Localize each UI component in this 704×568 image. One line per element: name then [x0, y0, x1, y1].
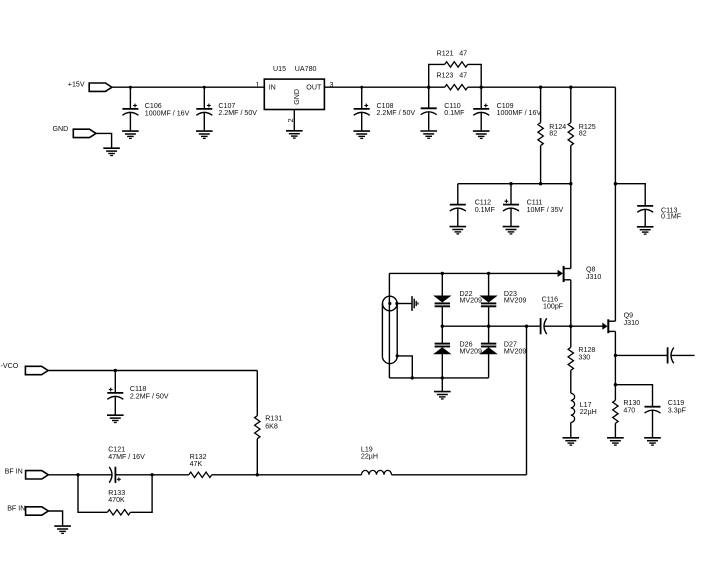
wire right rail down [614, 87, 616, 321]
wire U15 GND pin [293, 110, 295, 131]
capacitor C111 [510, 184, 512, 205]
node junction R125 top [569, 86, 572, 89]
capacitor C121 [109, 467, 115, 483]
capacitor C118 [114, 371, 116, 393]
node junction tuning feed [525, 325, 528, 328]
wire output to edge [671, 354, 694, 356]
resistor R124 [540, 87, 542, 122]
wire C119 branch [615, 385, 652, 407]
svg-text:BF IN: BF IN [5, 467, 23, 475]
wire R121 bypass loop [429, 64, 445, 87]
resistor R125 [570, 87, 572, 122]
capacitor C116 [541, 318, 547, 334]
node junction C119 branch [614, 383, 617, 386]
svg-text:3: 3 [330, 81, 334, 89]
capacitor C110 [428, 87, 430, 108]
svg-text:R131: R131 [265, 415, 282, 423]
svg-text:MV209: MV209 [504, 348, 527, 356]
svg-text:0.1MF: 0.1MF [444, 109, 465, 117]
svg-text:GND: GND [53, 125, 69, 133]
wire output branch [615, 354, 667, 356]
varactor diode D23 MV209 [488, 273, 490, 296]
ground resonator sideways [412, 296, 418, 311]
ground C118 [107, 415, 124, 422]
node junction C108 [360, 86, 363, 89]
node junction C121 left [76, 473, 79, 476]
wire R133 loop right [130, 475, 152, 513]
capacitor output coupling [668, 347, 674, 363]
resistor R132 [189, 472, 212, 477]
node junction output branch [614, 354, 617, 357]
wire U15 OUT rail [324, 86, 444, 88]
node resonator shield tap [396, 354, 399, 357]
node junction R131 bottom [256, 473, 259, 476]
ground C109 [473, 131, 490, 138]
transistor Q8 J310 [558, 266, 571, 282]
wire GND connector to ground [96, 133, 112, 148]
ground C108 [353, 131, 370, 138]
wire varactor ground stem [441, 378, 443, 392]
inductor L19 [362, 470, 392, 474]
resistor R133 [107, 510, 130, 515]
regulator U15 UA780 [264, 79, 324, 109]
svg-text:1: 1 [256, 81, 260, 89]
node junction D23 top [487, 272, 490, 275]
ground C110 [420, 131, 437, 138]
svg-text:47: 47 [459, 71, 467, 79]
input connector -VCO [25, 366, 48, 374]
svg-text:J310: J310 [624, 319, 639, 327]
svg-text:0.1MF: 0.1MF [475, 206, 496, 214]
wire R132 to L19 [212, 474, 362, 476]
wire varactor top line [389, 272, 558, 274]
node junction C121 right [150, 473, 153, 476]
ground varactors [434, 392, 451, 399]
svg-text:MV209: MV209 [504, 297, 527, 305]
node junction C113 branch [614, 182, 617, 185]
svg-text:22µH: 22µH [580, 408, 597, 416]
resistor R123 [445, 85, 468, 90]
inductor L17 [571, 393, 575, 422]
node resonator tap [395, 302, 398, 305]
capacitor C109 [480, 87, 482, 109]
ground U15 [286, 131, 303, 138]
wire rail to right corner [468, 86, 616, 88]
ground C106 [122, 131, 139, 138]
wire -VCO line [48, 370, 257, 372]
ground C119 [644, 438, 661, 445]
svg-text:82: 82 [579, 130, 587, 138]
svg-text:6K8: 6K8 [265, 422, 278, 430]
svg-text:470K: 470K [108, 496, 125, 504]
node junction shield bottom [411, 376, 414, 379]
capacitor C108 [361, 87, 363, 109]
varactor diode D22 MV209 [441, 273, 443, 296]
node junction R121 right [480, 86, 483, 89]
node junction R121 left [427, 86, 430, 89]
node junction C107 on +15V rail [203, 86, 206, 89]
ground L17 [563, 438, 580, 445]
svg-text:-VCO: -VCO [1, 362, 19, 370]
wire Q8 source down [570, 280, 572, 326]
wire Q9 source down [614, 331, 616, 400]
node junction R125 line [569, 182, 572, 185]
svg-text:22µH: 22µH [361, 453, 378, 461]
ground C107 [196, 131, 213, 138]
svg-text:IN: IN [269, 84, 276, 92]
svg-text:GND: GND [293, 89, 301, 105]
input connector GND [73, 129, 96, 137]
varactor diode D27 MV209 [488, 326, 490, 343]
node junction C111 [509, 182, 512, 185]
svg-text:2.2MF / 50V: 2.2MF / 50V [218, 109, 257, 117]
resistor R133 loop left [78, 475, 107, 513]
input connector +15V [89, 83, 112, 91]
svg-text:BF IN: BF IN [7, 504, 25, 512]
node junction R124 bottom [539, 182, 542, 185]
capacitor C106 [129, 87, 131, 109]
capacitor C113 [637, 206, 653, 212]
capacitor C112 [457, 184, 459, 205]
wire varactor mid line [442, 325, 540, 327]
node resonator center [388, 302, 391, 305]
svg-text:47: 47 [459, 50, 467, 58]
wire R121 loop right [468, 64, 482, 87]
node junction varactor ground [441, 376, 444, 379]
ground GND connector [103, 148, 120, 155]
node junction C106 on +15V rail [129, 86, 132, 89]
svg-text:2.2MF / 50V: 2.2MF / 50V [377, 109, 416, 117]
node junction D23 bottom [487, 325, 490, 328]
svg-text:0.1MF: 0.1MF [661, 213, 682, 221]
svg-text:47K: 47K [190, 460, 203, 468]
resistor R128 [570, 326, 572, 347]
wire resonator shield to bottom line [397, 356, 412, 378]
svg-text:2.2MF / 50V: 2.2MF / 50V [130, 392, 169, 400]
resonator coaxial body [382, 296, 397, 363]
input connector BF IN bottom [26, 507, 49, 515]
svg-text:330: 330 [578, 353, 590, 361]
svg-text:UA780: UA780 [295, 65, 317, 73]
svg-text:R121: R121 [437, 50, 454, 58]
node junction D22 top [441, 272, 444, 275]
ground BF IN bottom [54, 526, 71, 533]
wire +15V rail to U15 IN [112, 86, 264, 88]
svg-text:3.3pF: 3.3pF [668, 406, 687, 414]
svg-text:MV209: MV209 [460, 297, 483, 305]
ground C113 [637, 227, 654, 234]
node junction C118 [114, 369, 117, 372]
svg-text:+15V: +15V [68, 80, 85, 88]
ground R130 [607, 438, 624, 445]
wire C121 right [115, 474, 188, 476]
svg-text:R123: R123 [436, 71, 453, 79]
varactor diode D26 MV209 [441, 326, 443, 343]
svg-text:MV209: MV209 [460, 348, 483, 356]
svg-text:OUT: OUT [306, 83, 322, 91]
wire varactor bottom line [389, 377, 488, 379]
node junction D22 bottom [441, 325, 444, 328]
wire C113 branch [615, 184, 645, 206]
transistor Q9 J310 [602, 319, 615, 333]
wire mid bias line [458, 183, 571, 185]
wire BF IN to C121 [48, 474, 112, 476]
wire C116 to Q9 gate [544, 325, 603, 327]
wire BF IN bottom to ground [48, 511, 62, 526]
svg-text:10MF / 35V: 10MF / 35V [527, 206, 564, 214]
node junction R124 top [539, 86, 542, 89]
resonator center conductor [388, 273, 390, 378]
wire R125 down to Q8 drain [570, 146, 572, 269]
svg-text:100pF: 100pF [543, 302, 564, 310]
node junction R128 top [569, 325, 572, 328]
svg-text:47MF / 16V: 47MF / 16V [108, 453, 145, 461]
svg-text:1000MF / 16V: 1000MF / 16V [497, 109, 542, 117]
svg-text:82: 82 [549, 130, 557, 138]
capacitor C107 [203, 87, 205, 109]
capacitor C119 [645, 407, 661, 413]
ground C112 [450, 227, 467, 234]
resistor R130 [613, 400, 618, 423]
svg-text:1000MF / 16V: 1000MF / 16V [145, 109, 190, 117]
svg-text:470: 470 [623, 406, 635, 414]
resistor R121 [445, 62, 468, 67]
resistor R131 [256, 371, 258, 416]
ground C111 [503, 227, 520, 234]
wire tuning riser [526, 326, 528, 475]
svg-text:U15: U15 [273, 65, 286, 73]
input connector BF IN top [26, 471, 49, 479]
wire resonator tap to ground [397, 303, 412, 305]
svg-text:J310: J310 [586, 273, 601, 281]
wire L19 to riser [392, 474, 527, 476]
